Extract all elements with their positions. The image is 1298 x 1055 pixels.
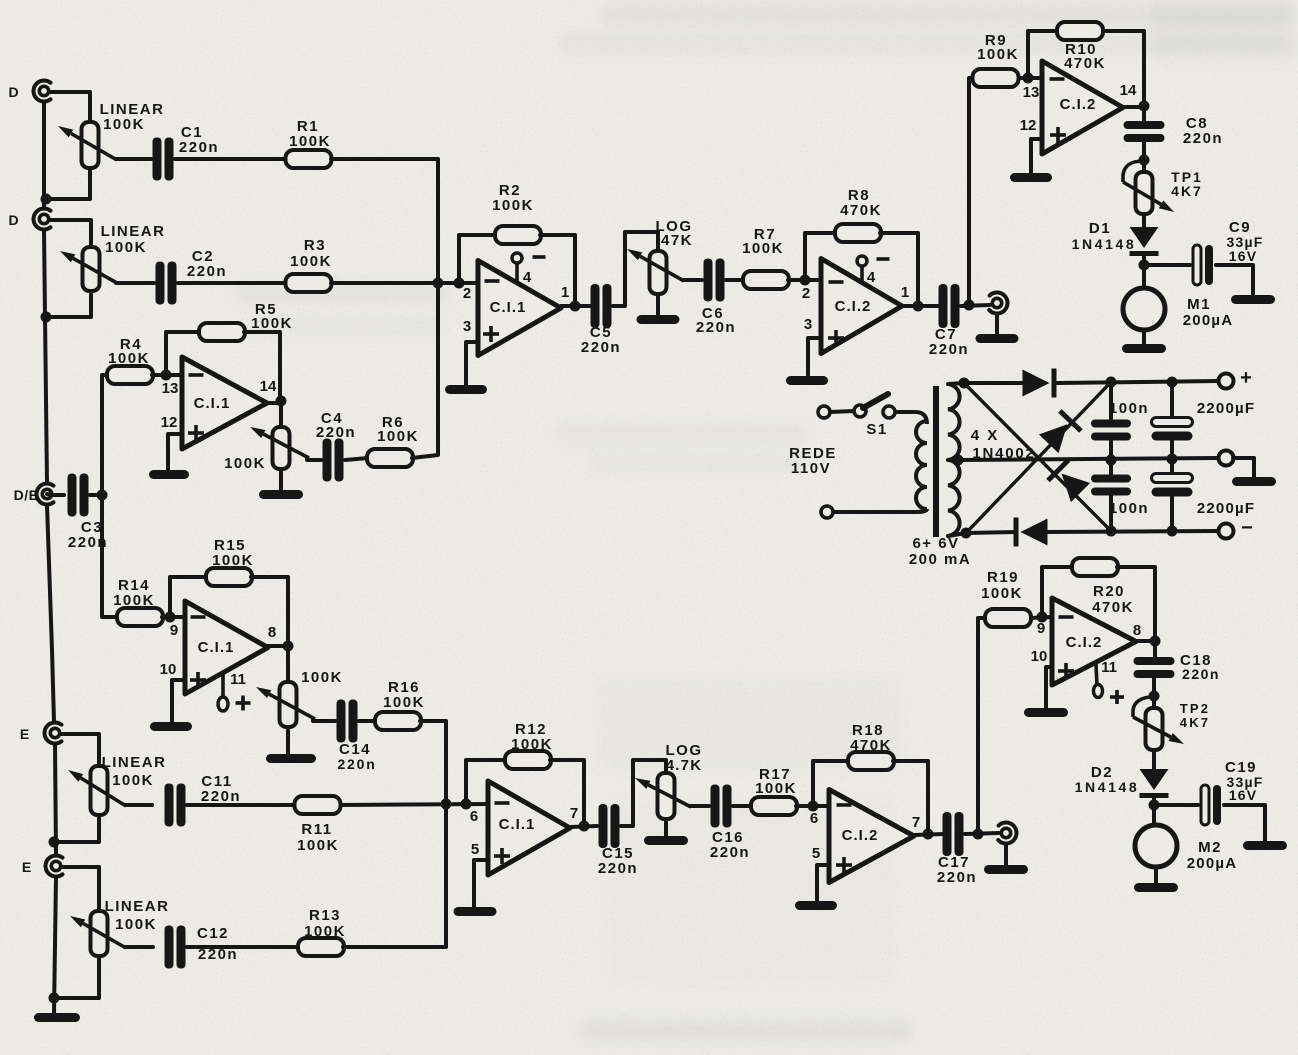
resistor R5 100K	[199, 301, 293, 341]
wire 2200uF to 0 rail	[1170, 441, 1174, 459]
ground (U1c pin 10)	[150, 722, 192, 731]
wiper arrow P3	[250, 427, 309, 458]
plus sign pin 3 input	[483, 332, 499, 336]
wire jack sleeve to ground	[995, 314, 999, 334]
ground (C9)	[1231, 295, 1275, 304]
minus sign pin 2 input	[485, 279, 500, 283]
junction C3 branch	[97, 490, 108, 501]
connector E input jack 2	[46, 856, 63, 877]
plus sign pin 12 input	[188, 431, 204, 435]
wire C4 to R6	[345, 458, 368, 460]
svg-text:200 mA: 200 mA	[909, 551, 971, 568]
junction + rail / diagonal	[1106, 377, 1117, 388]
svg-text:C.I.2: C.I.2	[1066, 634, 1103, 651]
svg-text:100K: 100K	[383, 694, 425, 711]
label 200uA	[1187, 855, 1238, 872]
svg-text:100K: 100K	[251, 315, 293, 332]
svg-text:220n: 220n	[316, 424, 356, 441]
svg-text:6+ 6V: 6+ 6V	[912, 535, 959, 552]
wire TP1 to D1	[1142, 214, 1146, 227]
label D1	[1089, 220, 1111, 237]
wire pin 12 to ground	[1031, 139, 1042, 173]
junction summing node B	[441, 799, 452, 810]
label 1N4002	[972, 445, 1035, 462]
svg-text:1N4002: 1N4002	[972, 445, 1035, 462]
svg-text:100K: 100K	[105, 239, 147, 256]
wire R5 feedback right	[244, 332, 280, 398]
connector D input jack 1	[34, 81, 51, 102]
wire 0 rail to 100n	[1109, 460, 1113, 474]
svg-text:3: 3	[463, 318, 471, 335]
svg-text:M1: M1	[1187, 296, 1211, 313]
capacitor C20 100n (+ rail)	[1091, 400, 1149, 441]
svg-text:2200µF: 2200µF	[1197, 500, 1255, 517]
svg-text:220n: 220n	[937, 869, 977, 886]
wire R18 feedback right	[893, 761, 928, 831]
label E (jack 2)	[22, 859, 32, 875]
svg-text:C.I.2: C.I.2	[835, 298, 872, 315]
wire R3 to op-amp pin 2	[331, 281, 477, 285]
pin 4 supply terminal (V-)	[512, 253, 546, 282]
svg-text:LINEAR: LINEAR	[105, 898, 170, 915]
wire primary bottom to mains	[833, 509, 927, 512]
resistor R16 100K	[375, 679, 425, 730]
connector + output terminal	[1219, 374, 1234, 389]
wire R20 feedback right	[1117, 567, 1155, 639]
connector mains terminal bottom	[821, 506, 833, 518]
ground (C19)	[1243, 841, 1287, 850]
wire R11 to U1d pin 6	[341, 804, 489, 805]
wiper arrow TP1	[1123, 182, 1174, 212]
svg-text:7: 7	[912, 814, 920, 831]
svg-text:6: 6	[810, 810, 818, 827]
ground (M2)	[1134, 883, 1178, 892]
wire R8 feedback right	[880, 233, 918, 303]
svg-text:5: 5	[812, 845, 820, 862]
svg-text:C.I.2: C.I.2	[842, 827, 879, 844]
svg-text:220n: 220n	[581, 339, 621, 356]
junction D1/M1/C9	[1139, 260, 1150, 271]
wire node to C9	[1144, 263, 1190, 267]
svg-text:220n: 220n	[710, 844, 750, 861]
capacitor C22 2200uF (+ rail)	[1152, 400, 1256, 441]
capacitor C12 220n	[165, 925, 239, 969]
wire centre 0V rail	[958, 458, 1218, 460]
wire node to C19	[1154, 803, 1198, 807]
diode bridge D3 (top)	[1023, 369, 1057, 398]
svg-text:1N4148: 1N4148	[1075, 779, 1140, 795]
capacitor C2 220n	[156, 248, 228, 305]
wire pot P7 bottom to rail	[56, 956, 99, 998]
ground (0V terminal)	[1232, 477, 1276, 486]
diode D1 1N4148	[1130, 227, 1159, 256]
svg-text:C.I.1: C.I.1	[198, 639, 235, 656]
label M2	[1198, 839, 1222, 856]
wiper arrow P1	[58, 126, 117, 160]
resistor R9 100K	[973, 32, 1019, 87]
pin 11 supply terminal (V+)	[218, 674, 251, 711]
connector output jack channel 2	[998, 823, 1016, 844]
wire R12 feedback left	[466, 760, 506, 804]
wire output pin 7 to C15	[570, 826, 597, 827]
junction R8 feedback tap	[800, 275, 811, 286]
meter M2 200uA	[1135, 825, 1177, 867]
svg-text:C.I.2: C.I.2	[1060, 96, 1097, 113]
wire ground rail segment 3	[47, 505, 54, 722]
capacitor C8 220n	[1124, 115, 1224, 147]
connector - output terminal	[1219, 524, 1234, 539]
wire R10 feedback left	[1028, 31, 1057, 78]
trimpot TP1 4K7	[1136, 169, 1203, 214]
wire M1 to ground	[1142, 330, 1146, 345]
label -	[1241, 517, 1253, 539]
svg-text:8: 8	[268, 624, 276, 641]
svg-text:100K: 100K	[492, 197, 534, 214]
wire output pin 8 down	[268, 646, 288, 682]
svg-text:14: 14	[260, 378, 277, 395]
resistor R1 100K	[286, 118, 332, 168]
op-amp U1d C.I.1 (pins 6,5,7)	[470, 781, 578, 875]
svg-text:470K: 470K	[850, 737, 892, 754]
label 1N4148	[1075, 779, 1140, 795]
wire jack sleeve to ground	[1004, 844, 1008, 865]
wiper arrow P4	[256, 687, 315, 719]
wire + rail to 100n	[1109, 382, 1113, 419]
wire TP1 wiper loop	[1123, 161, 1143, 182]
minus sign pin 13 input	[189, 373, 204, 377]
svg-text:7: 7	[570, 805, 578, 822]
svg-text:C12: C12	[197, 925, 229, 942]
svg-text:D: D	[8, 212, 19, 228]
svg-text:100K: 100K	[297, 837, 339, 854]
resistor R4 100K	[107, 336, 153, 384]
svg-text:1: 1	[901, 284, 909, 301]
diode bridge D4 (bottom)	[1014, 518, 1048, 547]
svg-text:4K7: 4K7	[1171, 183, 1203, 199]
svg-text:100K: 100K	[115, 916, 157, 933]
potentiometer P7 LINEAR 100K	[91, 898, 170, 956]
potentiometer P2 LINEAR 100K	[83, 223, 166, 291]
junction R19 tap	[973, 829, 984, 840]
ground (P3)	[259, 490, 303, 499]
wire output pin 7 to C17	[914, 834, 944, 835]
wire R14 to U1c pin 9	[162, 615, 185, 619]
potentiometer P6 LINEAR 100K	[91, 754, 167, 815]
svg-text:9: 9	[170, 622, 178, 639]
wire R15 feedback left	[170, 577, 207, 617]
wire C3 to branch node	[90, 493, 102, 497]
op-amp U2c C.I.2 (pins 6,5,7)	[810, 790, 920, 883]
capacitor C17 220n	[937, 812, 977, 886]
connector 0V output terminal	[1219, 451, 1234, 466]
junction rail/P2	[41, 312, 52, 323]
label 1N4148	[1072, 236, 1137, 252]
wire P5 wiper to C6	[683, 278, 702, 282]
svg-text:110V: 110V	[791, 460, 831, 477]
pin 11 supply terminal (V+)	[1094, 664, 1125, 704]
wire secondary bottom tap	[948, 533, 966, 536]
svg-text:2: 2	[463, 285, 471, 302]
junction 0 rail / 100n	[1106, 455, 1117, 466]
wire R15 feedback right	[251, 577, 288, 644]
svg-text:470K: 470K	[1064, 55, 1106, 72]
wire R18 feedback left	[813, 761, 849, 806]
wire TP2 wiper loop	[1133, 697, 1153, 717]
svg-text:100K: 100K	[113, 592, 155, 609]
minus sign pin 6 input	[837, 803, 852, 807]
resistor R3 100K	[286, 237, 332, 292]
wire negative rail	[1046, 531, 1218, 532]
wire pot P3 to ground	[279, 469, 283, 490]
wire pot P2 bottom to rail	[48, 291, 91, 317]
ground (P5)	[637, 315, 680, 324]
svg-text:100K: 100K	[304, 923, 346, 940]
wire pot P4 to ground	[286, 727, 290, 753]
junction TP2 wiper tie	[1149, 691, 1160, 702]
svg-text:220n: 220n	[1182, 666, 1220, 682]
capacitor C21 100n (- rail)	[1091, 475, 1149, 518]
junction R2 feedback tap	[454, 278, 465, 289]
junction secondary top	[959, 378, 970, 389]
svg-text:1N4148: 1N4148	[1072, 236, 1137, 252]
junction rail/P1	[41, 194, 52, 205]
wire jack2 to pot P2	[50, 220, 91, 247]
label 4X	[971, 427, 1000, 444]
wire secondary top tap	[948, 383, 964, 384]
potentiometer P3 100K	[224, 427, 289, 472]
wire bridge diagonal B	[966, 382, 1111, 533]
minus sign pin 2 input	[829, 280, 844, 284]
ground (P8)	[644, 836, 688, 845]
svg-text:11: 11	[1101, 659, 1117, 676]
wire D1 to node	[1142, 256, 1146, 288]
svg-text:200µA: 200µA	[1183, 312, 1234, 329]
junction TP1 wiper tie	[1139, 155, 1150, 166]
wire TP2 to D2	[1152, 750, 1156, 769]
ground (P4)	[266, 754, 316, 763]
capacitor C6 220n	[696, 259, 736, 337]
wire pin 5 to ground	[474, 860, 488, 907]
pin 4 supply terminal (V-)	[857, 256, 890, 284]
connector E input jack 1	[45, 723, 62, 744]
plus sign pin 10 input	[1058, 669, 1074, 673]
svg-text:3: 3	[804, 316, 812, 333]
junction output node U1a	[570, 301, 581, 312]
svg-text:100K: 100K	[103, 116, 145, 133]
svg-text:100K: 100K	[301, 669, 343, 686]
label E (jack 1)	[20, 726, 30, 742]
wire bottom tap to bridge diode	[966, 532, 1016, 533]
minus sign pin 9 input	[1059, 615, 1074, 619]
svg-text:D/E: D/E	[14, 487, 39, 503]
svg-text:100K: 100K	[977, 46, 1019, 63]
svg-text:LINEAR: LINEAR	[102, 754, 167, 771]
ground (U1d pin 5)	[454, 907, 497, 916]
wire ground rail segment 1	[42, 102, 46, 208]
svg-text:E: E	[22, 859, 32, 875]
junction output node U1d	[579, 821, 590, 832]
svg-text:100K: 100K	[755, 780, 797, 797]
wire jackE2 to pot P7	[62, 867, 99, 911]
svg-text:100n: 100n	[1109, 500, 1149, 517]
op-amp U1c C.I.1 (pins 9,10,8)	[160, 601, 277, 694]
wire + rail to 2200uF	[1170, 382, 1174, 417]
wire D2 to node	[1152, 798, 1156, 825]
ground (output jack 1)	[976, 334, 1019, 343]
junction output node U1b	[276, 396, 287, 407]
wire pot P5 to ground	[656, 294, 660, 314]
svg-text:6: 6	[470, 808, 478, 825]
minus sign pin 13 input	[1050, 77, 1065, 81]
svg-text:C.I.1: C.I.1	[194, 395, 231, 412]
wire jack1 to pot P1	[50, 92, 90, 122]
wire C18 to TP2	[1152, 677, 1156, 696]
svg-text:100K: 100K	[289, 133, 331, 150]
connector D input jack 2	[34, 209, 51, 230]
switch S1	[854, 394, 895, 438]
resistor R13 100K	[298, 907, 346, 956]
wire R17 to U2c pin 6	[796, 804, 829, 808]
wire output pin 8 to C18	[1136, 641, 1155, 658]
potentiometer P1 LINEAR 100K	[82, 101, 165, 168]
wire R12 feedback right	[550, 760, 584, 824]
svg-text:100K: 100K	[377, 428, 419, 445]
junction R5 feedback tap	[161, 370, 172, 381]
wire C19 to ground	[1224, 805, 1265, 841]
wire ground rail segment 2	[44, 230, 47, 483]
svg-text:220n: 220n	[337, 756, 376, 772]
capacitor C23 2200uF (- rail)	[1152, 474, 1256, 518]
plus sign pin 5 input	[836, 863, 852, 867]
junction R12 feedback tap	[461, 799, 472, 810]
diode bridge D5 (diagonal A)	[1046, 458, 1091, 503]
wire 0 rail to 2200uF	[1170, 459, 1174, 473]
junction secondary centre	[953, 455, 964, 466]
wire ground rail segment 5	[54, 877, 56, 1013]
svg-text:47K: 47K	[661, 232, 693, 249]
wire C11 to R11	[187, 803, 294, 807]
wire R9 to U2b pin 13	[1019, 76, 1042, 80]
resistor R10 470K	[1057, 22, 1106, 72]
wire output pin 1 to C7	[902, 304, 940, 308]
svg-text:100K: 100K	[224, 455, 266, 472]
potentiometer P5 LOG 47K	[650, 218, 694, 294]
svg-text:470K: 470K	[1092, 599, 1134, 616]
svg-text:D1: D1	[1089, 220, 1111, 237]
capacitor C15 220n	[598, 804, 638, 877]
wire P6 wiper to C11	[125, 803, 152, 807]
resistor R2 100K	[492, 182, 541, 244]
junction - rail / diagonal	[1106, 526, 1117, 537]
capacitor C11 220n	[165, 773, 242, 827]
wire pot P1 bottom to rail	[48, 168, 90, 199]
wire P4 wiper to C14	[313, 720, 335, 721]
junction + rail / 2200uF	[1167, 377, 1178, 388]
capacitor C16 220n	[710, 785, 750, 862]
svg-text:100K: 100K	[511, 736, 553, 753]
svg-text:220n: 220n	[187, 263, 227, 280]
wire P1 wiper to C1	[116, 157, 151, 161]
svg-text:R20: R20	[1093, 583, 1125, 600]
wire S1 to transformer primary	[895, 412, 927, 424]
junction output node U2d	[1150, 636, 1161, 647]
junction R9 tap	[964, 300, 975, 311]
wire output pin 14 to C8	[1123, 107, 1144, 122]
minus sign pin 6 input	[495, 801, 510, 805]
wire positive rail	[1057, 381, 1218, 383]
wire node to TP2 top	[1152, 696, 1156, 708]
wiper arrow P8	[635, 778, 691, 807]
svg-text:TP2: TP2	[1180, 701, 1210, 716]
trimpot TP2 4K7	[1146, 701, 1211, 750]
op-amp U1b C.I.1 (pins 13,12,14)	[161, 357, 277, 449]
svg-text:+: +	[1240, 367, 1252, 389]
wiper arrow P7	[70, 916, 126, 948]
svg-text:D: D	[8, 84, 19, 100]
label 110V	[791, 460, 831, 477]
svg-text:10: 10	[1031, 648, 1048, 665]
wire C1 to R1	[175, 157, 287, 161]
svg-text:220n: 220n	[1183, 130, 1223, 147]
svg-text:C.I.1: C.I.1	[490, 299, 527, 316]
svg-text:100K: 100K	[290, 253, 332, 270]
wire R2 feedback right	[540, 235, 575, 303]
svg-text:13: 13	[1023, 84, 1040, 101]
wire bridge diagonal A	[964, 383, 1111, 531]
svg-text:220n: 220n	[696, 319, 736, 336]
wire R19 to U2d pin 9	[1031, 617, 1052, 618]
wire R1 to summing node	[331, 159, 438, 283]
svg-text:16V: 16V	[1229, 248, 1258, 264]
wire C7 to output jack	[961, 305, 990, 306]
svg-text:R11: R11	[301, 821, 332, 838]
resistor R18 470K	[848, 722, 894, 770]
junction R15 feedback tap	[165, 612, 176, 623]
wire P2 wiper to C2	[116, 281, 154, 285]
wire C12 to R13	[187, 945, 299, 949]
svg-text:2200µF: 2200µF	[1197, 400, 1255, 417]
svg-text:4: 4	[523, 269, 532, 286]
capacitor C5 220n	[581, 284, 621, 356]
wire 100n to - rail	[1109, 496, 1113, 531]
capacitor C9 33uF 16V	[1193, 219, 1264, 285]
label D (jack 2)	[8, 212, 19, 228]
connector output jack channel 1	[989, 293, 1007, 314]
connector D/E input jack	[37, 484, 54, 505]
ground (input rail)	[34, 1013, 80, 1022]
label 6+6V	[912, 535, 959, 552]
resistor R8 470K	[835, 187, 882, 242]
wire top tap to bridge diode	[964, 381, 1022, 385]
wire output pin 1	[561, 304, 591, 308]
capacitor C18 220n	[1134, 652, 1220, 682]
wire pin 10 to ground	[1046, 667, 1052, 708]
op-amp U2d C.I.2 (pins 9,10,8)	[1031, 598, 1142, 685]
svg-text:100K: 100K	[981, 585, 1023, 602]
wire P3 wiper to C4	[307, 459, 321, 460]
ground (U1a pin 3)	[445, 385, 487, 394]
svg-text:100K: 100K	[112, 772, 154, 789]
ground (M1)	[1122, 344, 1166, 353]
ground (U2c pin 5)	[795, 901, 837, 910]
resistor R15 100K	[206, 537, 254, 586]
resistor R17 100K	[751, 766, 797, 815]
svg-text:12: 12	[161, 414, 178, 431]
junction output node U2c	[923, 829, 934, 840]
wire 100n to 0 rail	[1109, 441, 1113, 460]
svg-text:11: 11	[230, 671, 246, 688]
wire M2 to ground	[1154, 867, 1158, 883]
